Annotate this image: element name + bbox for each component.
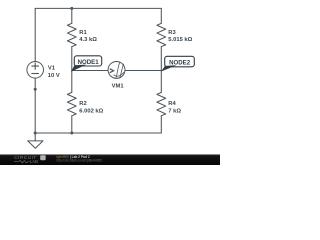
svg-text:7 kΩ: 7 kΩ <box>168 108 181 114</box>
svg-text:NODE2: NODE2 <box>169 59 191 66</box>
svg-text:R1: R1 <box>79 30 87 36</box>
wire R4 bottom lead <box>160 116 162 133</box>
wire middle column R1 top lead <box>71 8 73 23</box>
wire R3 bottom to R4 top through node2 junction <box>160 47 162 93</box>
wire top rail <box>35 7 161 9</box>
node NODE1 flag <box>71 56 102 72</box>
resistor R3 <box>157 23 166 46</box>
junction dot top mid <box>70 7 73 10</box>
svg-text:V1: V1 <box>48 65 56 71</box>
resistor R2 <box>67 92 76 115</box>
svg-text:4.3 kΩ: 4.3 kΩ <box>79 37 97 43</box>
wire right column R3 top lead <box>160 8 162 23</box>
svg-text:5.015 kΩ: 5.015 kΩ <box>168 37 192 43</box>
svg-text:http://circuitlab.com/c/p6bd49: http://circuitlab.com/c/p6bd49f65 <box>56 159 102 163</box>
CircuitLab logo white square mark <box>40 155 46 160</box>
svg-text:10 V: 10 V <box>48 73 60 79</box>
wire R1 bottom to R2 top through node1 junction <box>71 47 73 93</box>
wire voltmeter to node2 <box>125 70 161 72</box>
wire bottom rail <box>35 132 161 134</box>
footer bar <box>0 154 220 165</box>
wire node1 to voltmeter <box>72 70 108 72</box>
svg-text:R2: R2 <box>79 101 86 107</box>
resistor R1 <box>67 23 76 46</box>
svg-text:6.002 kΩ: 6.002 kΩ <box>79 109 103 115</box>
svg-text:NODE1: NODE1 <box>78 59 100 66</box>
svg-text:R4: R4 <box>168 101 176 107</box>
ground <box>28 141 43 148</box>
wire R2 bottom lead <box>71 116 73 133</box>
CircuitLab logo line2 wire + LAB <box>14 161 30 163</box>
wire left column top (V1 top lead) <box>34 8 36 61</box>
voltage source V1 <box>27 62 44 79</box>
resistor R4 <box>157 92 166 115</box>
svg-text:LAB: LAB <box>30 159 38 164</box>
node NODE2 flag <box>161 56 194 71</box>
junction dot V1 bottom wire <box>34 88 37 91</box>
junction dot bottom left <box>34 132 37 135</box>
voltmeter VM1 <box>108 61 125 78</box>
svg-text:R3: R3 <box>168 30 176 36</box>
svg-text:VM1: VM1 <box>112 84 125 90</box>
wire left column bottom (V1 bottom lead) <box>34 78 36 133</box>
ground stem <box>34 133 36 141</box>
junction dot bottom mid <box>70 132 73 135</box>
